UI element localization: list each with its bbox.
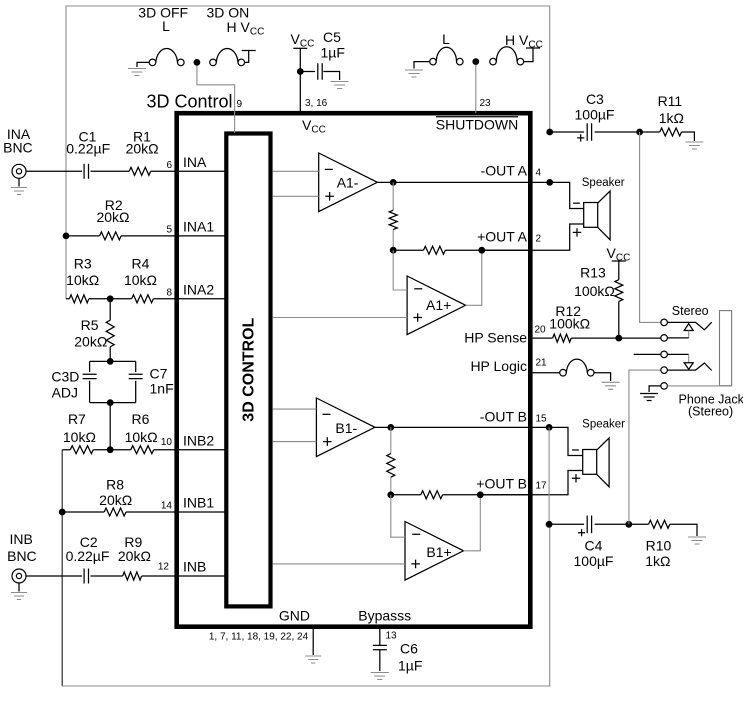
svg-text:INB2: INB2 [183, 432, 214, 448]
svg-text:14: 14 [161, 501, 173, 512]
wire INB1 [62, 511, 226, 513]
feedback resistor A1 vertical [392, 182, 394, 250]
svg-text:13: 13 [386, 631, 398, 642]
node C4 junction [546, 521, 553, 528]
svg-text:20kΩ: 20kΩ [96, 209, 129, 225]
wire left headphone feed (C3 to jack tip) [640, 132, 661, 322]
resistor R1 [129, 167, 150, 175]
svg-text:9: 9 [237, 99, 243, 110]
resistor R8 [104, 508, 126, 516]
ground R11 [685, 142, 703, 149]
ground HP logic [602, 382, 620, 389]
svg-text:1kΩ: 1kΩ [645, 553, 670, 569]
ground INB BNC [18, 583, 20, 592]
svg-text:20kΩ: 20kΩ [118, 548, 151, 564]
capacitor C2 [84, 569, 88, 584]
svg-text:R11: R11 [658, 93, 683, 109]
node C4/R10/headphone junction [625, 521, 632, 528]
svg-text:10kΩ: 10kΩ [66, 272, 99, 288]
jack NC contact triangle down [684, 363, 693, 370]
svg-text:10kΩ: 10kΩ [124, 272, 157, 288]
wire Vcc to pin 3,16 [299, 48, 301, 113]
svg-text:C3: C3 [586, 91, 604, 107]
node C3/R11/headphone junction [636, 129, 643, 136]
wire A1+ inverting input elbow [393, 250, 407, 290]
svg-text:L: L [162, 18, 170, 34]
svg-text:A1-: A1- [337, 174, 359, 190]
svg-text:8: 8 [166, 287, 172, 298]
wire feedback loop bottom left (R7/R8 tap) [61, 450, 63, 686]
node A1- output [390, 179, 397, 186]
svg-text:100kΩ: 100kΩ [549, 315, 590, 331]
svg-text:INA2: INA2 [183, 282, 214, 298]
svg-text:C7: C7 [150, 366, 168, 382]
jack stub contact row 3 [661, 351, 668, 358]
wire feedback loop top (R2/R3 to -OUT A node) [66, 6, 550, 299]
svg-text:R7: R7 [68, 411, 86, 427]
svg-text:L: L [442, 31, 450, 47]
node A feedback junction [390, 247, 397, 254]
wire INA input [26, 170, 226, 172]
op-amp B1- [316, 398, 375, 457]
wire 3D control to pin 9 [197, 66, 235, 133]
svg-text:R10: R10 [646, 538, 672, 554]
wire INA2 [66, 298, 226, 300]
wire B1- output to -OUT B [375, 426, 549, 428]
svg-text:Speaker: Speaker [582, 177, 625, 189]
node 3D control junction [194, 59, 201, 66]
wire -OUT A to speaker [550, 182, 584, 208]
node C3D/C7 bottom junction [107, 399, 114, 406]
svg-text:100µF: 100µF [575, 107, 615, 123]
svg-text:HP Logic: HP Logic [470, 358, 527, 374]
svg-text:0.22µF: 0.22µF [66, 548, 110, 564]
node shutdown junction [472, 58, 479, 65]
wire C3D/C7 to INB2 [109, 403, 111, 450]
node R7/R6/R5net junction [107, 446, 114, 453]
svg-text:R5: R5 [81, 317, 99, 333]
node B1- output [387, 424, 394, 431]
op-amp A1- [319, 153, 378, 212]
wire INA1 [66, 235, 226, 237]
node Vcc/C5 junction [297, 68, 304, 75]
jack NC contact triangle up [684, 324, 693, 331]
svg-text:17: 17 [536, 480, 548, 491]
op-amp B1+ [405, 522, 464, 581]
svg-text:INA1: INA1 [183, 219, 214, 235]
feedback resistor B2 horizontal [391, 494, 530, 496]
svg-text:+OUT B: +OUT B [476, 475, 527, 491]
wire -OUT B to C4 [548, 427, 550, 524]
svg-text:20: 20 [535, 324, 547, 335]
svg-text:BNC: BNC [7, 548, 37, 564]
wire feedback loop bottom (to -OUT B node) [62, 524, 550, 686]
node B feedback junction [387, 491, 394, 498]
svg-text:C4: C4 [585, 538, 603, 554]
node +OUT A junction [478, 247, 485, 254]
node +OUT B junction [477, 491, 484, 498]
feedback resistor B1 vertical [390, 427, 392, 494]
resistor R10 [649, 520, 670, 528]
svg-text:100kΩ: 100kΩ [574, 283, 615, 299]
resistor R6 [131, 446, 154, 454]
capacitor C7 [90, 361, 136, 402]
svg-text:GND: GND [279, 608, 310, 624]
svg-text:B1+: B1+ [426, 544, 451, 560]
svg-text:INA: INA [183, 154, 207, 170]
3D switch S1 [137, 62, 149, 67]
capacitor C3 [587, 123, 591, 141]
jack ring contact row 4 [661, 367, 668, 374]
svg-text:10: 10 [161, 437, 173, 448]
feedback resistor A2 horizontal [393, 249, 530, 251]
svg-text:R6: R6 [132, 411, 150, 427]
svg-text:1nF: 1nF [150, 381, 174, 397]
wire A1- non-inverting input [273, 195, 319, 197]
jack tip contact row 1 [661, 319, 668, 326]
svg-text:12: 12 [158, 562, 170, 573]
svg-text:Bypasss: Bypasss [358, 608, 411, 624]
capacitor C3D [90, 361, 136, 402]
resistor R11 [660, 128, 682, 136]
wire A1- inverting input [273, 170, 319, 172]
wire right headphone feed (jack ring to C4) [629, 370, 661, 524]
svg-text:0.22µF: 0.22µF [66, 141, 110, 157]
op-amp A1+ [407, 276, 466, 335]
node C3 junction [546, 129, 553, 136]
capacitor C4 [587, 516, 591, 534]
svg-text:20kΩ: 20kΩ [74, 334, 107, 350]
HP logic jumper [533, 372, 560, 374]
svg-text:23: 23 [480, 98, 492, 109]
ground jack sleeve [640, 394, 658, 401]
wire B1+ output elbow [464, 495, 481, 551]
resistor R9 [123, 572, 142, 580]
svg-text:20kΩ: 20kΩ [99, 492, 132, 508]
svg-text:Speaker: Speaker [582, 418, 625, 430]
svg-text:B1-: B1- [335, 420, 357, 436]
svg-text:R4: R4 [132, 255, 150, 271]
svg-text:Stereo: Stereo [672, 304, 709, 318]
svg-text:INB1: INB1 [183, 495, 214, 511]
svg-text:100µF: 100µF [574, 553, 614, 569]
wire B1- non-inverting input [273, 441, 317, 443]
svg-text:1, 7, 11, 18, 19, 22, 24: 1, 7, 11, 18, 19, 22, 24 [209, 632, 309, 643]
svg-text:INB: INB [10, 531, 33, 547]
svg-text:HP Sense: HP Sense [464, 330, 527, 346]
jack sleeve contact row 5 [661, 383, 668, 390]
svg-text:10kΩ: 10kΩ [63, 429, 96, 445]
svg-text:+OUT A: +OUT A [477, 228, 528, 244]
svg-text:2: 2 [536, 233, 542, 244]
node -OUT A / loop junction [546, 179, 553, 186]
node R8 tap on bottom loop [59, 509, 66, 516]
node R3/R4/R5 junction [107, 295, 114, 302]
wire INB input [26, 575, 226, 577]
node -OUT B / loop junction [546, 424, 553, 431]
ground R10 [688, 537, 706, 544]
wire A1+ output elbow [466, 250, 482, 305]
svg-text:1µF: 1µF [398, 658, 422, 674]
svg-text:-OUT A: -OUT A [481, 162, 528, 178]
svg-text:R3: R3 [74, 255, 92, 271]
op-amp U1 IC body [177, 113, 531, 627]
svg-text:3D Control: 3D Control [146, 91, 232, 111]
svg-text:15: 15 [536, 414, 548, 425]
node R2 tap on feedback loop [63, 233, 70, 240]
svg-text:C5: C5 [323, 29, 341, 45]
resistor R13 [618, 261, 620, 338]
svg-text:SHUTDOWN: SHUTDOWN [436, 117, 518, 133]
svg-text:BNC: BNC [3, 139, 33, 155]
wire INB2 [62, 449, 226, 451]
ground GND pin [312, 629, 314, 655]
svg-text:1µF: 1µF [321, 45, 345, 61]
wire B1+ inverting input elbow [391, 495, 405, 537]
svg-text:3D CONTROL: 3D CONTROL [241, 317, 258, 421]
node R12/R13 junction [615, 335, 622, 342]
jack sense contact row 2 [661, 335, 668, 342]
svg-text:A1+: A1+ [426, 297, 451, 313]
svg-text:3, 16: 3, 16 [305, 98, 328, 109]
svg-text:ADJ: ADJ [52, 385, 78, 401]
svg-text:-OUT B: -OUT B [480, 409, 527, 425]
resistor R5 [109, 299, 111, 362]
svg-text:(Stereo): (Stereo) [688, 404, 733, 418]
wire B1- inverting input [273, 408, 317, 410]
svg-text:C3D: C3D [51, 368, 79, 384]
phone jack body [720, 311, 732, 386]
svg-text:INB: INB [183, 559, 206, 575]
svg-text:3D ON: 3D ON [207, 4, 250, 20]
resistor R3 [69, 295, 88, 303]
wire B1+ non-inverting input [273, 563, 405, 565]
svg-text:C6: C6 [400, 641, 418, 657]
wire HP Sense [533, 337, 661, 339]
3D control block [226, 134, 270, 607]
ground INA BNC [18, 178, 20, 186]
svg-text:10kΩ: 10kΩ [125, 429, 158, 445]
svg-text:4: 4 [536, 167, 542, 178]
wire C4 row [549, 523, 629, 525]
svg-text:5: 5 [166, 224, 172, 235]
svg-text:R13: R13 [580, 265, 606, 281]
wire +OUT B [480, 471, 582, 495]
capacitor C6 [379, 629, 381, 671]
svg-text:20kΩ: 20kΩ [126, 141, 159, 157]
capacitor C1 [84, 164, 88, 179]
resistor R12 [553, 334, 572, 342]
wire shutdown to pin 23 [475, 65, 477, 113]
svg-text:R8: R8 [106, 476, 124, 492]
resistor R4 [132, 295, 154, 303]
wire C3 row [550, 131, 640, 133]
wire A1- output to -OUT A [377, 181, 549, 183]
resistor R2 [100, 232, 121, 240]
svg-text:6: 6 [166, 160, 172, 171]
wire +OUT A [482, 224, 584, 250]
resistor R7 [70, 446, 93, 454]
shutdown switch S2 [414, 62, 430, 69]
wire -OUT B to speaker [549, 427, 583, 455]
node C3D/C7 top junction [107, 358, 114, 365]
capacitor C5 [304, 71, 316, 73]
svg-text:1kΩ: 1kΩ [659, 110, 684, 126]
wire A1+ non-inverting input [273, 317, 408, 319]
svg-text:21: 21 [536, 357, 548, 368]
